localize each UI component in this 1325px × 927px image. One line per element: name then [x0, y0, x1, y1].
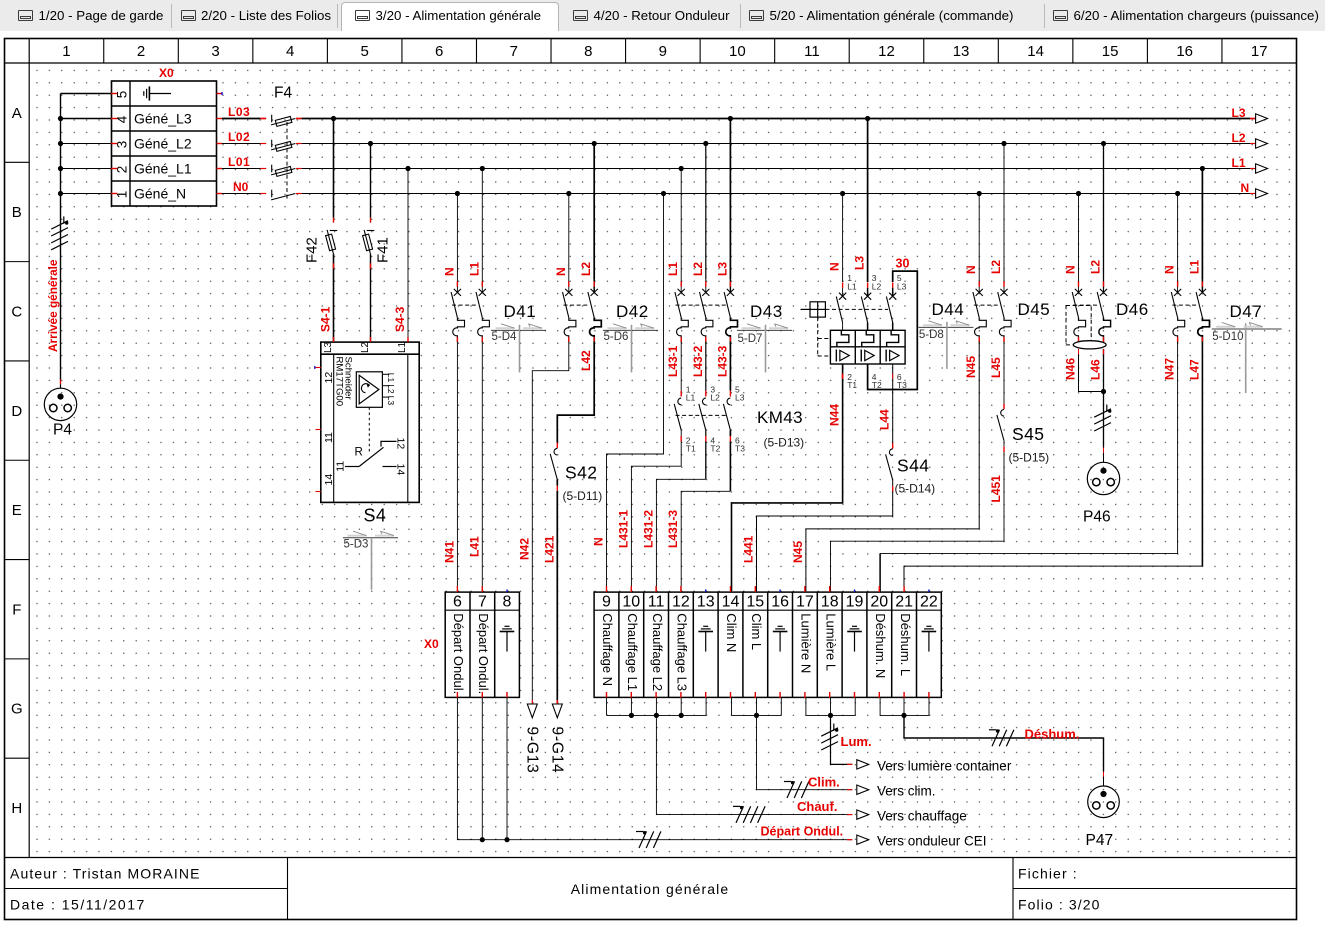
wire L431-3 [729, 442, 731, 492]
svg-text:L01: L01 [228, 155, 250, 169]
svg-text:11: 11 [323, 432, 335, 443]
svg-text:16: 16 [771, 594, 789, 611]
svg-text:N: N [442, 267, 456, 276]
svg-text:L3: L3 [386, 396, 396, 406]
svg-text:14: 14 [323, 474, 335, 486]
svg-text:Géné_N: Géné_N [134, 186, 186, 202]
svg-text:T3: T3 [735, 444, 745, 454]
svg-text:9-G14: 9-G14 [549, 727, 566, 774]
svg-text:R: R [355, 447, 363, 459]
arrow 9-G14 [556, 700, 558, 706]
svg-text:11: 11 [648, 594, 665, 611]
KM43 pole 1/L1 [680, 342, 682, 391]
D44 pole 892.7 [892, 283, 894, 288]
svg-text:Vers lumière container: Vers lumière container [877, 759, 1012, 774]
svg-text:5-D4: 5-D4 [492, 331, 518, 343]
D44 handle [810, 302, 825, 317]
svg-text:15: 15 [1102, 43, 1119, 60]
svg-text:L2: L2 [1089, 260, 1103, 274]
svg-text:L3: L3 [853, 256, 867, 270]
svg-text:L43-2: L43-2 [691, 345, 705, 377]
F4 pole 3 [271, 165, 273, 173]
svg-text:G: G [11, 701, 23, 718]
svg-text:N42: N42 [517, 538, 531, 560]
terminal 13 [692, 592, 694, 697]
svg-text:14: 14 [722, 594, 740, 611]
svg-text:L421: L421 [542, 535, 556, 563]
svg-text:T3: T3 [897, 380, 907, 390]
svg-text:7: 7 [478, 594, 487, 611]
wire: L1 bus (L01) [222, 168, 260, 170]
svg-text:Chauffage L1: Chauffage L1 [625, 613, 640, 691]
wire: N bus (N0) [222, 193, 260, 195]
svg-text:22: 22 [920, 594, 938, 611]
svg-text:P47: P47 [1086, 832, 1114, 849]
svg-text:6: 6 [435, 43, 443, 60]
svg-text:L3: L3 [1232, 106, 1246, 120]
svg-text:12: 12 [395, 438, 407, 450]
svg-text:10: 10 [729, 43, 746, 60]
svg-text:Folio : 3/20: Folio : 3/20 [1018, 897, 1100, 913]
svg-text:S4-3: S4-3 [393, 306, 407, 332]
svg-text:E: E [12, 502, 22, 519]
svg-text:L1: L1 [686, 393, 696, 403]
wire to Vers lumiere [831, 715, 853, 764]
X0 pin5 blue mark [221, 92, 223, 95]
svg-text:Clim N: Clim N [724, 613, 739, 652]
svg-text:L1: L1 [666, 262, 680, 276]
D44 pole 867.6 [867, 283, 869, 288]
svg-text:L3: L3 [735, 393, 745, 403]
svg-text:20: 20 [870, 594, 888, 611]
svg-text:6: 6 [453, 594, 462, 611]
terminal 14 [717, 592, 719, 697]
svg-text:Chauf.: Chauf. [797, 799, 837, 814]
svg-text:S4: S4 [364, 506, 387, 526]
svg-text:(5-D14): (5-D14) [895, 482, 936, 496]
junction P46 cable [1101, 389, 1106, 394]
svg-text:17: 17 [796, 594, 814, 611]
junction arrival/N0 [61, 193, 112, 195]
svg-text:9-G13: 9-G13 [524, 727, 541, 774]
svg-text:T1: T1 [847, 380, 857, 390]
svg-text:Lum.: Lum. [841, 734, 872, 749]
cable marker Depart Ondul [636, 831, 643, 833]
svg-text:(5-D11): (5-D11) [563, 489, 603, 503]
svg-text:L43-3: L43-3 [715, 345, 729, 377]
svg-text:L02: L02 [228, 130, 250, 144]
title block [287, 858, 289, 920]
svg-text:T2: T2 [872, 380, 882, 390]
cable marker P46 [1106, 405, 1108, 412]
svg-text:Arrivée générale: Arrivée générale [46, 259, 60, 352]
KM43 pole 3/L2 [705, 342, 707, 391]
svg-text:D46: D46 [1116, 300, 1149, 319]
svg-text:L431-3: L431-3 [666, 510, 680, 548]
svg-text:Fichier :: Fichier : [1018, 866, 1078, 882]
wire L44 [892, 364, 894, 443]
svg-text:Chauffage N: Chauffage N [600, 613, 615, 686]
wire N42 [532, 342, 569, 701]
breaker D45 [977, 191, 982, 196]
terminal 18 [816, 592, 818, 697]
svg-text:L44: L44 [878, 409, 892, 430]
svg-text:Déshum. L: Déshum. L [898, 613, 913, 676]
svg-text:L1: L1 [847, 282, 857, 292]
svg-text:Chauffage L2: Chauffage L2 [650, 613, 665, 691]
socket P46 [1103, 448, 1105, 453]
D41 pole 457.4 [455, 191, 460, 196]
F4 pole 2 [271, 140, 273, 148]
wire Chauffage N feed [661, 191, 666, 196]
svg-text:L42: L42 [579, 350, 593, 371]
F4 mech link [286, 122, 288, 199]
arrow L1 out [1256, 164, 1268, 173]
KM43 pole 5/L3 [729, 342, 731, 391]
ground symbol in X0 row 5 [143, 91, 145, 96]
svg-text:L2: L2 [989, 260, 1003, 274]
svg-text:X0: X0 [424, 637, 439, 651]
breaker D42 [566, 191, 571, 196]
svg-text:N: N [554, 267, 568, 276]
D44 thermal/magnetic box [830, 330, 905, 364]
svg-text:18: 18 [821, 594, 839, 611]
svg-text:13: 13 [697, 594, 715, 611]
svg-text:L2: L2 [872, 282, 882, 292]
terminal 12 [668, 592, 670, 697]
svg-text:8: 8 [503, 594, 512, 611]
svg-text:5: 5 [360, 43, 368, 60]
svg-text:9: 9 [602, 594, 611, 611]
svg-text:Clim L: Clim L [749, 613, 764, 650]
wire L451 [831, 452, 1005, 591]
svg-text:12: 12 [878, 43, 895, 60]
junction arrival/L01 [61, 168, 112, 170]
arrow 9-G13 [531, 700, 533, 706]
arrow N out [1256, 189, 1268, 198]
svg-text:N: N [1163, 265, 1177, 274]
svg-text:D44: D44 [932, 300, 965, 319]
svg-text:Lumière L: Lumière L [823, 613, 838, 671]
svg-text:KM43: KM43 [757, 408, 803, 427]
wire: L2 bus (L02) [222, 143, 260, 145]
svg-text:14: 14 [395, 464, 407, 476]
D43 pole at 730.4 [728, 116, 733, 121]
wire N45 [806, 342, 979, 592]
svg-text:(5-D13): (5-D13) [764, 436, 805, 450]
terminal 22 [916, 592, 918, 697]
svg-text:10: 10 [622, 594, 640, 611]
svg-text:F42: F42 [304, 237, 321, 263]
wire S4 L1 feed [405, 166, 410, 171]
terminal 19 [841, 592, 843, 697]
svg-text:L1: L1 [467, 262, 481, 276]
svg-text:D: D [11, 403, 22, 420]
D43 pole at 705.8 [703, 141, 708, 146]
svg-text:30: 30 [896, 257, 910, 271]
svg-text:5-D10: 5-D10 [1212, 331, 1243, 343]
switch S45 [1003, 404, 1005, 410]
svg-text:8: 8 [584, 43, 592, 60]
svg-text:Auteur : Tristan MORAINE: Auteur : Tristan MORAINE [10, 866, 201, 882]
svg-text:Déshum.: Déshum. [1025, 727, 1080, 742]
S4 device pins L1 L2 L3 [382, 373, 389, 375]
svg-text:L441: L441 [742, 535, 756, 563]
svg-text:7: 7 [510, 43, 518, 60]
terminal 15 [742, 592, 744, 697]
svg-text:N0: N0 [233, 180, 249, 194]
svg-text:D41: D41 [504, 302, 537, 321]
svg-text:A: A [12, 105, 22, 122]
svg-text:S45: S45 [1012, 424, 1044, 444]
svg-text:12: 12 [672, 594, 690, 611]
arrow L3 out [1256, 114, 1268, 123]
arrow L2 out [1256, 139, 1268, 148]
svg-text:14: 14 [1027, 43, 1044, 60]
svg-text:L431-1: L431-1 [616, 510, 630, 548]
wire L45 [1003, 342, 1005, 404]
svg-text:3: 3 [211, 43, 219, 60]
D43 pole at 681.2 [679, 166, 684, 171]
F4 pole 4 [271, 190, 273, 198]
clim group bar [731, 697, 733, 715]
D44 bracket wire (30) [868, 271, 918, 389]
svg-text:Départ Ondul.: Départ Ondul. [476, 613, 491, 694]
terminal 20 [866, 592, 868, 697]
svg-text:N: N [828, 262, 842, 271]
svg-text:F: F [12, 601, 21, 618]
terminal 16 [767, 592, 769, 697]
svg-text:S44: S44 [897, 456, 929, 476]
svg-text:D42: D42 [616, 302, 649, 321]
svg-text:D43: D43 [750, 302, 783, 321]
svg-text:C: C [11, 303, 22, 320]
svg-text:11: 11 [335, 461, 347, 472]
svg-text:Déshum. N: Déshum. N [873, 613, 888, 678]
svg-text:1: 1 [62, 43, 70, 60]
svg-text:(5-D15): (5-D15) [1009, 451, 1050, 465]
wire L431-2 [705, 442, 707, 480]
wire L431-1 [631, 442, 681, 592]
terminal block X0 [112, 81, 217, 206]
wire N44 [732, 364, 843, 591]
wire: L3 bus (L03) [222, 118, 260, 120]
svg-text:N46: N46 [1064, 358, 1078, 380]
terminal 11 [643, 592, 645, 697]
cable marker arrival [63, 216, 65, 223]
svg-text:Alimentation générale: Alimentation générale [571, 881, 730, 897]
svg-text:D45: D45 [1018, 300, 1051, 319]
wire L47 [1201, 342, 1203, 567]
svg-text:S4-1: S4-1 [319, 306, 333, 332]
svg-text:L2: L2 [691, 262, 705, 276]
junction arrival/L02 [61, 143, 112, 145]
wire L421 [556, 491, 558, 700]
relay S4 (Schneider RM17TG00) [321, 342, 419, 502]
svg-text:4: 4 [115, 115, 130, 123]
socket P47 [1103, 772, 1105, 777]
svg-text:T1: T1 [686, 444, 696, 454]
svg-text:X0: X0 [159, 66, 174, 80]
svg-text:17: 17 [1251, 43, 1268, 60]
svg-text:13: 13 [953, 43, 970, 60]
svg-text:Géné_L2: Géné_L2 [134, 136, 192, 152]
terminal strip X0 (6,7,8) [445, 592, 519, 697]
svg-text:3: 3 [115, 141, 130, 149]
svg-text:L03: L03 [228, 105, 250, 119]
svg-text:P4: P4 [53, 422, 72, 439]
svg-text:12: 12 [323, 372, 335, 384]
D41 pole 482.3 [480, 166, 485, 171]
svg-text:Vers clim.: Vers clim. [877, 784, 936, 799]
S4 dashed link [368, 407, 370, 452]
svg-text:N: N [592, 537, 606, 546]
svg-text:L1: L1 [1232, 156, 1246, 170]
terminal 17 [792, 592, 794, 697]
wire to P47 [904, 715, 1104, 771]
svg-text:P46: P46 [1083, 509, 1111, 526]
lumiere group bar [805, 697, 807, 715]
wire to Vers clim [757, 715, 853, 789]
svg-text:N: N [1241, 181, 1250, 195]
svg-text:F41: F41 [375, 237, 392, 263]
svg-text:H: H [11, 800, 22, 817]
svg-text:L47: L47 [1187, 359, 1201, 380]
svg-text:L3: L3 [715, 262, 729, 276]
svg-text:21: 21 [895, 594, 913, 611]
svg-text:Clim.: Clim. [808, 775, 840, 790]
switch S42 [556, 443, 558, 449]
fuse F41 [368, 141, 373, 146]
svg-text:L1: L1 [386, 373, 396, 383]
svg-text:L45: L45 [989, 357, 1003, 378]
svg-text:L46: L46 [1089, 359, 1103, 380]
svg-text:11: 11 [804, 43, 820, 60]
fuse F42 [331, 116, 336, 121]
switch S44 [892, 443, 894, 449]
D44 pole 842.6 [842, 283, 844, 288]
svg-text:D47: D47 [1230, 302, 1263, 321]
terminal 21 [891, 592, 893, 697]
wire N47 [880, 342, 1178, 554]
svg-text:Géné_L1: Géné_L1 [134, 161, 192, 177]
wire L441 [757, 491, 893, 591]
svg-text:L2: L2 [386, 384, 396, 394]
svg-text:L43-1: L43-1 [666, 345, 680, 377]
wires Depart Ondul to arrow [457, 697, 852, 839]
breaker D47 [1175, 191, 1180, 196]
svg-text:5: 5 [115, 91, 130, 99]
svg-text:L2: L2 [1232, 131, 1246, 145]
S4 xref 5-D3 [343, 537, 398, 539]
junction arrival/L03 [61, 118, 112, 120]
wire to Vers chauffage [656, 715, 852, 814]
socket P4 [60, 380, 62, 385]
chauffage group bar [606, 697, 608, 715]
svg-text:N47: N47 [1163, 358, 1177, 380]
svg-text:Départ Ondul.: Départ Ondul. [761, 824, 844, 838]
S4 measuring device (triangle) [356, 372, 382, 408]
svg-text:2: 2 [115, 166, 130, 174]
svg-text:Départ Ondul.: Départ Ondul. [451, 613, 466, 694]
wire L46 [1103, 349, 1105, 448]
svg-text:RM17TG00: RM17TG00 [334, 357, 345, 407]
svg-text:N: N [1064, 265, 1078, 274]
wire L42 [557, 342, 594, 443]
svg-text:Vers chauffage: Vers chauffage [877, 809, 967, 824]
svg-text:5-D7: 5-D7 [738, 333, 763, 345]
svg-text:F4: F4 [274, 85, 292, 102]
svg-text:L3: L3 [323, 341, 334, 353]
breaker D46 (RCD) [1076, 191, 1081, 196]
svg-text:4: 4 [286, 43, 294, 60]
svg-text:2: 2 [137, 43, 145, 60]
svg-text:Date : 15/11/2017: Date : 15/11/2017 [10, 897, 146, 913]
D46 RCD dashed frame [1066, 306, 1091, 345]
svg-text:16: 16 [1176, 43, 1193, 60]
svg-text:S42: S42 [565, 463, 597, 483]
svg-text:Géné_L3: Géné_L3 [134, 111, 192, 127]
svg-text:N: N [964, 265, 978, 274]
svg-text:5-D8: 5-D8 [919, 329, 944, 341]
svg-text:L451: L451 [989, 475, 1003, 503]
svg-text:L1: L1 [397, 341, 408, 353]
svg-text:L41: L41 [467, 536, 481, 557]
svg-text:L3: L3 [897, 282, 907, 292]
F4 pole 1 [271, 115, 273, 123]
svg-text:N41: N41 [442, 541, 456, 563]
svg-text:15: 15 [746, 594, 764, 611]
svg-text:5-D6: 5-D6 [604, 331, 629, 343]
deshum group bar [879, 697, 881, 715]
terminal strip 9-22 [594, 592, 941, 697]
terminal 10 [618, 592, 620, 697]
svg-text:T2: T2 [710, 444, 720, 454]
svg-text:N45: N45 [964, 356, 978, 378]
motor breaker D44 [840, 191, 845, 196]
svg-text:L2: L2 [579, 262, 593, 276]
svg-text:L2: L2 [360, 341, 371, 353]
svg-text:N45: N45 [791, 541, 805, 563]
svg-text:1: 1 [115, 191, 130, 199]
svg-text:N44: N44 [828, 404, 842, 426]
svg-text:5-D3: 5-D3 [344, 539, 369, 551]
svg-text:19: 19 [846, 594, 864, 611]
svg-text:L2: L2 [710, 393, 720, 403]
D46 toroid [1073, 341, 1106, 349]
svg-text:L431-2: L431-2 [641, 510, 655, 548]
svg-text:B: B [12, 204, 22, 221]
wire: arrival feeder vertical [60, 94, 62, 380]
svg-text:Chauffage L3: Chauffage L3 [675, 613, 690, 691]
wire N46 [1079, 349, 1102, 392]
svg-text:L1: L1 [1187, 260, 1201, 274]
svg-text:Vers onduleur CEI: Vers onduleur CEI [877, 834, 987, 849]
svg-text:Lumière N: Lumière N [799, 613, 814, 673]
svg-text:9: 9 [659, 43, 667, 60]
